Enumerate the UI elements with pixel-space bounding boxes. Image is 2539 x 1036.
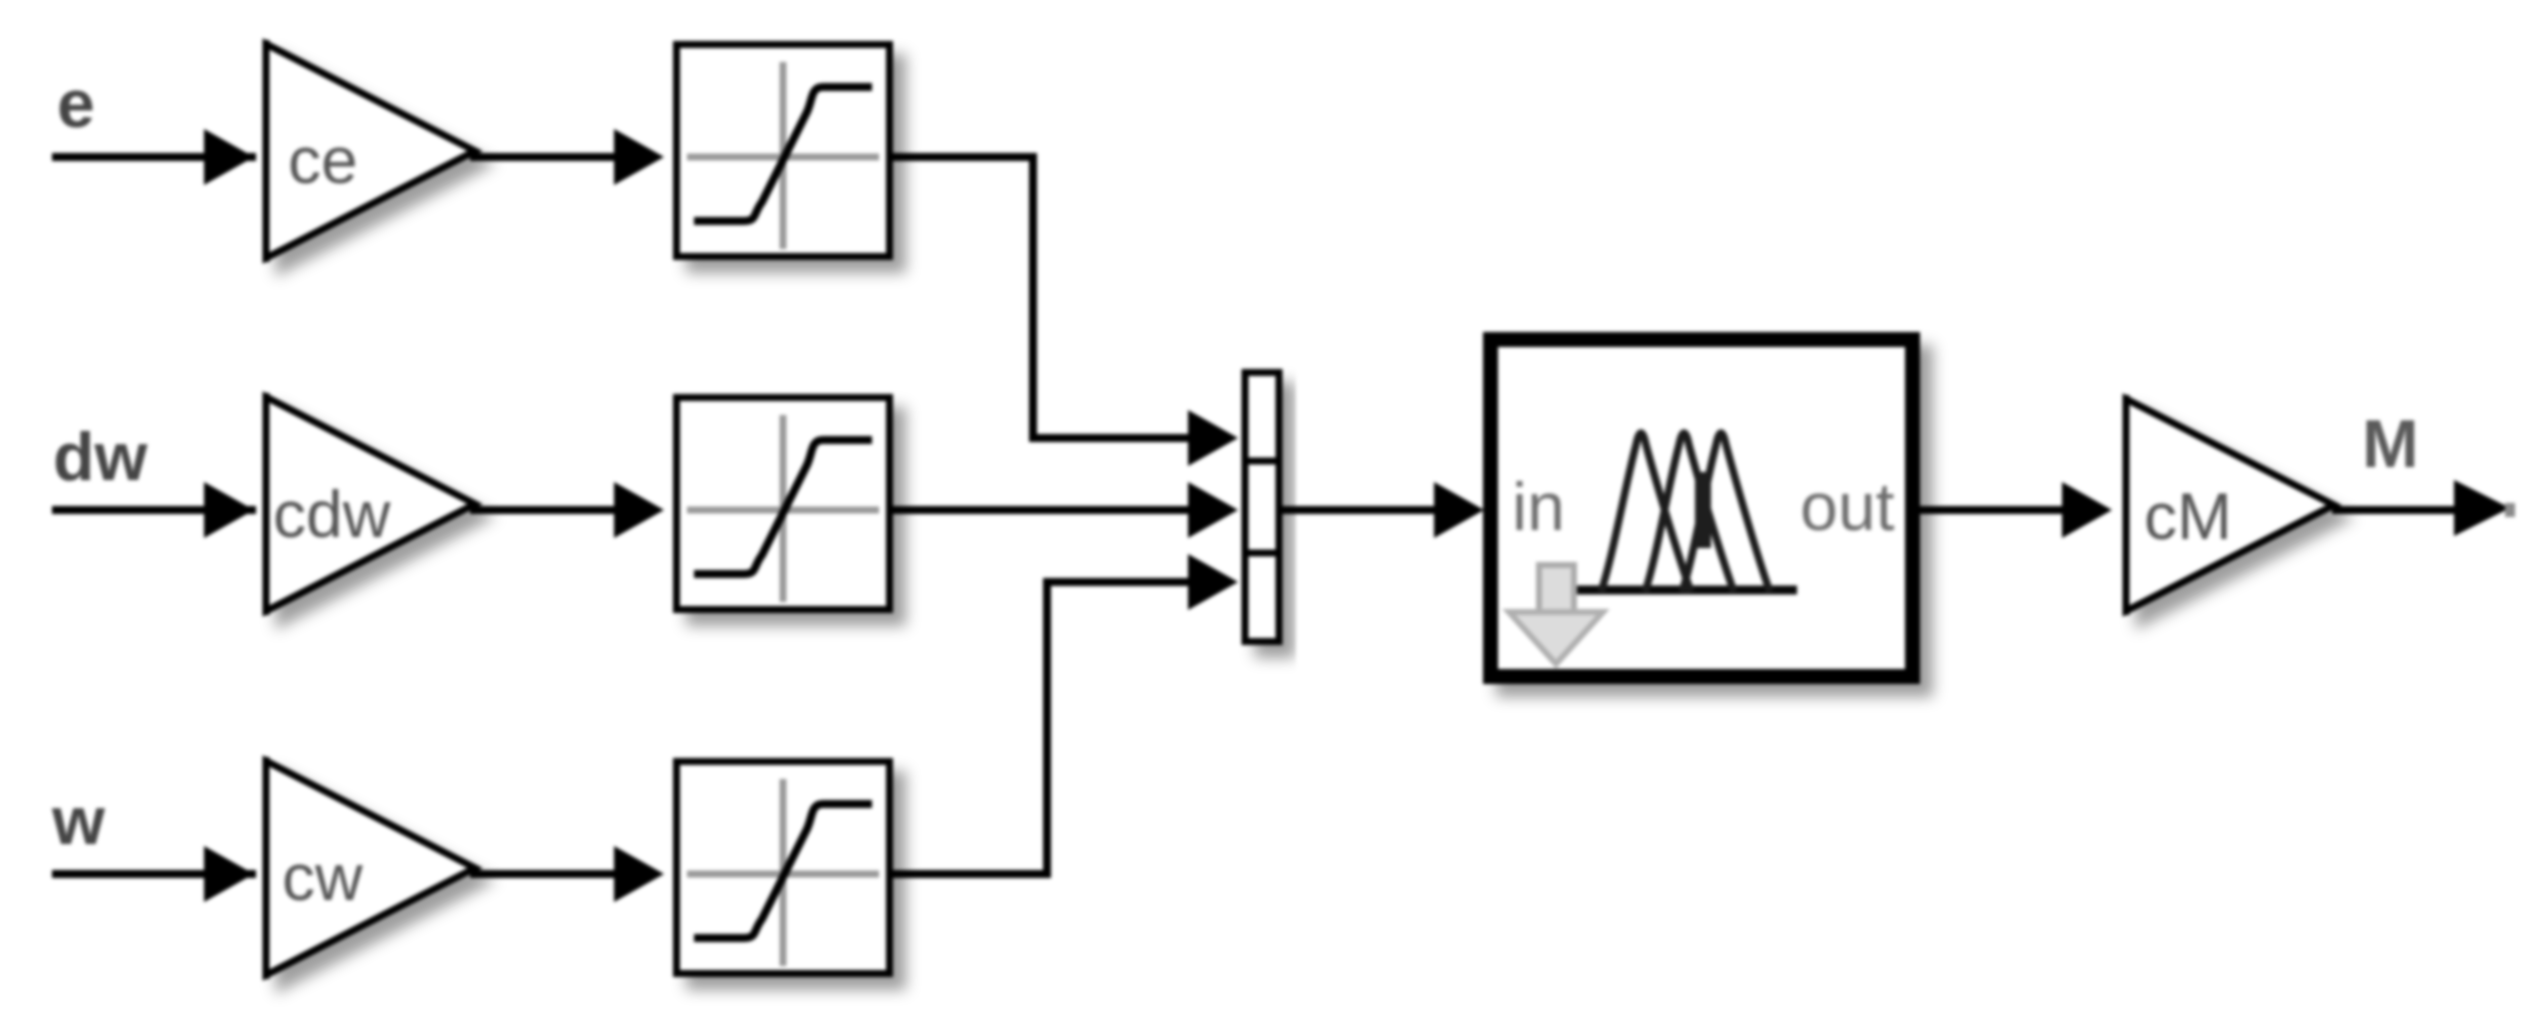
arrowhead into saturation 2 [614, 482, 664, 538]
arrowhead into mux port 3 [1188, 554, 1238, 610]
wire saturation 2 output to mux port 2 [893, 506, 1190, 514]
saturation 3 icon curve [694, 804, 872, 938]
wire horizontal to mux input 1 [1029, 434, 1190, 442]
wire mux output [1282, 506, 1436, 514]
arrowhead into mux port 1 [1188, 410, 1238, 466]
wire e input [52, 153, 256, 161]
saturation block 1 [677, 45, 890, 257]
wire vertical up to mux input 3 [1043, 578, 1051, 878]
svg-text:M: M [2362, 406, 2419, 482]
wire ce to saturation 1 [470, 153, 620, 161]
arrowhead into gain cM [2062, 482, 2112, 538]
wire saturation 1 output [893, 153, 1037, 161]
svg-text:cw: cw [282, 840, 363, 914]
gray down arrow stem [1539, 565, 1574, 613]
mux block [1245, 373, 1279, 642]
saturation 3 icon axes [687, 779, 879, 966]
svg-text:w: w [51, 783, 106, 859]
gain cw [266, 757, 475, 979]
membership function 2 [1645, 433, 1734, 592]
arrowhead into mux port 2 [1188, 482, 1238, 538]
wire vertical down to mux input 1 [1029, 153, 1037, 442]
saturation block 2 [677, 398, 890, 610]
arrowhead into gain cdw [204, 482, 254, 538]
arrowhead into saturation 3 [614, 846, 664, 902]
arrowhead into fuzzy controller [1434, 482, 1484, 538]
membership crossing bar [1695, 472, 1711, 548]
wire cM output [2332, 506, 2458, 514]
svg-text:cdw: cdw [273, 477, 391, 551]
mux divider 1 [1242, 458, 1282, 465]
svg-text:e: e [57, 66, 95, 142]
svg-text:cM: cM [2144, 479, 2232, 553]
wire horizontal to mux input 3 [1043, 578, 1190, 586]
membership function 1 [1601, 433, 1691, 592]
wire fuzzy output [1920, 506, 2068, 514]
output port stub [2505, 503, 2515, 517]
saturation block 3 [677, 762, 890, 974]
gray down arrow head [1509, 612, 1603, 664]
fuzzy logic controller block [1491, 340, 1913, 677]
wire saturation 3 output [893, 870, 1051, 878]
mux divider 2 [1242, 550, 1282, 557]
svg-text:out: out [1800, 469, 1895, 545]
saturation 1 icon curve [694, 87, 872, 221]
membership function baseline [1572, 586, 1797, 595]
wire cw to saturation 3 [470, 870, 620, 878]
saturation 2 icon axes [687, 415, 879, 602]
arrowhead into gain ce [204, 129, 254, 185]
arrowhead into saturation 1 [614, 129, 664, 185]
wire cdw to saturation 2 [470, 506, 620, 514]
gain ce [266, 40, 475, 262]
saturation 2 icon curve [694, 440, 872, 574]
gray axis stub [1561, 585, 1573, 595]
membership function 3 [1682, 433, 1770, 592]
wire dw input [52, 506, 256, 514]
saturation 1 icon axes [687, 62, 879, 249]
gain cM [2126, 395, 2334, 615]
arrowhead output M [2454, 480, 2510, 536]
gain cdw [266, 393, 475, 615]
arrowhead into gain cw [204, 846, 254, 902]
svg-text:dw: dw [53, 419, 149, 495]
wire w input [52, 870, 256, 878]
svg-text:in: in [1512, 469, 1565, 545]
svg-text:ce: ce [288, 123, 358, 197]
